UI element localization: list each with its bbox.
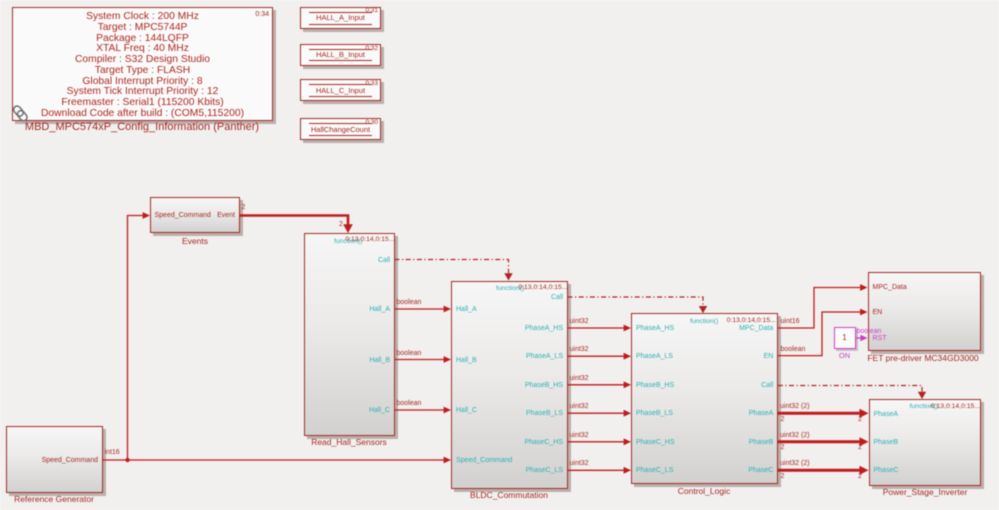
label 2 PhaseA dest bbox=[858, 416, 862, 424]
label 2 at Read_Hall_Sensors trigger bbox=[339, 221, 343, 229]
wire PhaseC_HS uint32 bbox=[568, 438, 632, 445]
wire Call (dash-dot) BLDC_Commutation to Control_Logic bbox=[568, 297, 708, 313]
label 2 PhaseA source bbox=[781, 416, 785, 424]
wire Call (dash-dot) Control_Logic to Power_Stage_Inverter bbox=[778, 386, 926, 400]
label Power_Stage_Inverter bbox=[883, 488, 968, 497]
wire PhaseB_HS uint32 bbox=[568, 381, 632, 388]
label boolean EN bbox=[781, 346, 806, 354]
wire MPC_Data uint16 bbox=[778, 284, 868, 328]
label uint32 PhaseA_HS bbox=[570, 318, 589, 326]
data store HALL_B_Input bbox=[300, 44, 381, 66]
label 2 PhaseB source bbox=[781, 444, 785, 452]
subsystem Reference Generator bbox=[6, 426, 103, 493]
label Control_Logic bbox=[678, 487, 730, 496]
constant ON value 1 bbox=[834, 327, 856, 349]
label uint32 (2) PhaseC bbox=[780, 460, 810, 468]
wire EN boolean bbox=[778, 309, 868, 356]
wire PhaseA_LS uint32 bbox=[568, 353, 632, 360]
label uint32 (2) PhaseA bbox=[780, 403, 810, 411]
label 2 PhaseC source bbox=[781, 473, 785, 481]
label Events bbox=[182, 237, 208, 246]
subsystem Power_Stage_Inverter bbox=[869, 399, 982, 486]
wire PhaseC uint32 (2) vector bbox=[778, 466, 869, 475]
label ON bbox=[839, 351, 850, 360]
label boolean RST (magenta) bbox=[857, 328, 882, 336]
wire PhaseB uint32 (2) vector bbox=[778, 437, 869, 446]
wire Speed_Command int16 from Reference Generator to BLDC_Commutation bbox=[103, 457, 452, 464]
subsystem Control_Logic bbox=[631, 313, 778, 484]
data store HALL_C_Input bbox=[300, 79, 381, 101]
wire PhaseC_LS uint32 bbox=[568, 467, 632, 474]
label boolean Hall_A bbox=[397, 299, 422, 307]
config info block MBD_MPC574xP_Config_Information bbox=[12, 7, 273, 121]
label uint32 PhaseA_LS bbox=[570, 346, 589, 354]
label uint32 PhaseC_HS bbox=[570, 432, 589, 440]
label int16 bbox=[105, 449, 120, 457]
library link badge (paperclip) bbox=[11, 103, 29, 123]
data store HALL_A_Input bbox=[300, 7, 381, 30]
subsystem Read_Hall_Sensors bbox=[304, 233, 395, 436]
label Read_Hall_Sensors bbox=[311, 438, 387, 447]
label BLDC_Commutation bbox=[470, 491, 548, 500]
label uint32 PhaseC_LS bbox=[570, 460, 589, 468]
label MBD_MPC574xP_Config_Information (Panther) bbox=[25, 123, 259, 132]
label boolean Hall_B bbox=[397, 350, 422, 358]
junction Speed_Command node bbox=[125, 458, 129, 462]
wire Speed_Command branch to Events bbox=[128, 212, 151, 460]
label 2 PhaseB dest bbox=[858, 444, 862, 452]
label 2 PhaseC dest bbox=[858, 473, 862, 481]
data store HallChangeCount bbox=[300, 118, 381, 140]
subsystem BLDC_Commutation bbox=[451, 281, 568, 489]
label uint16 MPC_Data bbox=[781, 318, 800, 326]
wire PhaseA uint32 (2) vector bbox=[778, 409, 869, 418]
label uint32 PhaseB_LS bbox=[570, 403, 589, 411]
wire PhaseB_LS uint32 bbox=[568, 410, 632, 417]
label Reference Generator bbox=[14, 495, 94, 504]
subsystem Events bbox=[150, 197, 240, 232]
block FET pre-driver MC34GD3000 bbox=[868, 272, 982, 351]
wire Hall_C boolean bbox=[395, 407, 452, 414]
label FET pre-driver MC34GD3000 bbox=[867, 354, 978, 363]
label boolean Hall_C bbox=[397, 400, 422, 408]
wire Hall_B boolean bbox=[395, 356, 452, 363]
wire RST boolean (magenta) constant to FET bbox=[856, 335, 868, 342]
wire Hall_A boolean bbox=[395, 306, 452, 313]
wire function-call Events to Read_Hall_Sensors bbox=[240, 216, 353, 234]
label 2 at Events output bbox=[242, 204, 246, 212]
wire Call (dash-dot) Read_Hall_Sensors to BLDC_Commutation bbox=[395, 260, 513, 281]
wire PhaseA_HS uint32 bbox=[568, 325, 632, 332]
label uint32 PhaseB_HS bbox=[570, 375, 589, 383]
label uint32 (2) PhaseB bbox=[780, 432, 810, 440]
